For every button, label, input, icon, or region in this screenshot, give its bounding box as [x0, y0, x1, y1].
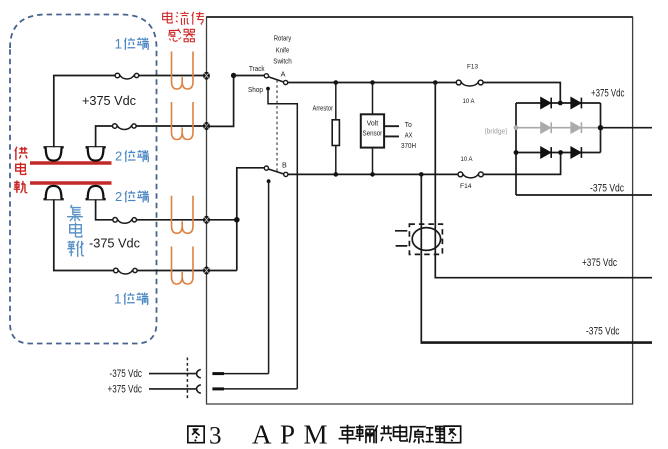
current sensor coil 2	[172, 102, 194, 140]
wire: rail-2 fuse to bus	[136, 125, 206, 127]
collector shoe lower-right	[86, 186, 106, 199]
junction dot F13 branch	[433, 80, 438, 85]
wire: shoe lower-right stem to rail-3 wire	[96, 199, 113, 220]
svg-text:Switch: Switch	[273, 57, 292, 66]
wire: pole B shop contact down run	[268, 182, 270, 374]
collector shoe lower-left	[44, 186, 64, 199]
junction dot arrestor bottom	[334, 172, 339, 177]
svg-text:+375 Vdc: +375 Vdc	[108, 384, 143, 396]
svg-text:10 A: 10 A	[461, 156, 473, 163]
diode D3 mid-left (gray)	[541, 122, 552, 133]
pole A blade	[268, 77, 283, 82]
label 1位端 (top, blue)	[115, 37, 149, 52]
arrestor body	[335, 83, 337, 120]
wire: right feeder through transducer down to +375 output	[435, 83, 652, 278]
svg-text:To: To	[405, 120, 412, 129]
svg-text:+375 Vdc: +375 Vdc	[582, 257, 617, 269]
label 集电靴 (vertical, blue)	[67, 205, 84, 257]
wire: pole A output to fuse F13	[288, 82, 457, 84]
svg-text:AX: AX	[405, 131, 413, 140]
transducer dashed housing	[409, 224, 442, 254]
volt sensor output leads to AX 370H	[384, 126, 399, 136]
svg-text:1: 1	[115, 37, 123, 52]
wire: shoe lower-left stem to rail-4 wire	[54, 199, 114, 270]
label 2位端 (upper, blue)	[115, 149, 149, 164]
diode D1 top-left	[541, 97, 552, 108]
wire: F13 to bridge top	[483, 83, 560, 104]
svg-text:Volt: Volt	[367, 119, 379, 128]
fuse on rail-1 wire	[115, 73, 139, 79]
volt sensor box	[372, 83, 374, 115]
label 电流传感器 (current sensor, red)	[163, 12, 204, 42]
svg-text:F13: F13	[467, 64, 478, 71]
pole B shop contact dot	[267, 179, 271, 183]
wire: pole B output to fuse F14	[288, 173, 458, 175]
current sensor coil 1	[172, 52, 194, 90]
diode D5 bottom-left	[541, 147, 552, 158]
main schematic frame box	[207, 17, 633, 404]
label 2位端 (lower, blue)	[115, 189, 149, 204]
fuse on rail-2 wire	[113, 124, 137, 130]
collector shoe upper-left	[44, 147, 64, 160]
diode D4 mid-right (gray)	[571, 122, 582, 133]
wire: Shop A down-over-down run	[268, 89, 297, 389]
svg-text:Knife: Knife	[276, 46, 290, 55]
fuse F14	[458, 172, 483, 178]
svg-text:(bridge): (bridge)	[485, 127, 508, 136]
feed stub +375	[212, 387, 224, 390]
fuse on rail-3 wire	[113, 218, 137, 224]
wire: rail-3 fuse to link column	[137, 219, 237, 221]
junction dot volt sensor top	[370, 80, 375, 85]
label 1位端 (bottom, blue)	[114, 292, 148, 307]
rotary knife switch pole B: track contact	[264, 166, 268, 170]
frame top edge emphasised	[207, 16, 633, 18]
wire: negative link column (rail3/rail4 tie feeding pole B)	[237, 168, 264, 271]
svg-text:2: 2	[115, 189, 122, 204]
current sensor coil 4	[172, 247, 194, 285]
feed stub -375	[212, 372, 224, 375]
svg-text:-375 Vdc: -375 Vdc	[590, 183, 624, 195]
wire: left feeder through transducer down to -375 output	[420, 174, 422, 342]
diode D6 bottom-right	[571, 147, 582, 158]
svg-text:3: 3	[209, 423, 222, 449]
svg-text:Shop: Shop	[248, 85, 263, 94]
fuse F13	[456, 80, 483, 86]
svg-text:1: 1	[114, 292, 122, 307]
pole B hinge contact	[284, 172, 288, 176]
wire: bridge -output run to right edge	[516, 194, 652, 196]
label 供电轨 (vertical, red)	[14, 147, 28, 193]
svg-text:Track: Track	[249, 64, 265, 73]
wire: positive link jog (rail1/rail2 tie)	[207, 76, 234, 127]
supply rail bar top (red)	[30, 161, 112, 164]
svg-text:-375 Vdc: -375 Vdc	[110, 368, 143, 380]
supply rail bar bottom (red)	[30, 181, 112, 184]
wire: rail-4 fuse to link column	[137, 270, 237, 272]
feed boundary dashed line	[186, 358, 188, 401]
svg-text:APM: APM	[252, 420, 336, 449]
junction dot arrestor top	[334, 80, 339, 85]
wire: rail-1 fuse to bus	[139, 75, 207, 77]
svg-text:Rotary: Rotary	[274, 34, 292, 43]
power-rail zone dashed rounded rectangle	[10, 15, 157, 344]
junction dot on rail-1 wire	[231, 73, 236, 78]
svg-text:Arrestor: Arrestor	[313, 104, 334, 113]
collector shoe upper-right	[86, 147, 106, 160]
svg-text:-375 Vdc: -375 Vdc	[586, 326, 620, 338]
svg-text:F14: F14	[460, 183, 472, 190]
wire: shoe upper-right stem to rail-2 wire	[96, 126, 113, 147]
svg-text:370H: 370H	[401, 141, 416, 150]
diode D2 top-right	[571, 97, 582, 108]
mechanical link dashed line between poles	[276, 80, 278, 171]
diode bridge rails	[516, 103, 601, 195]
svg-text:A: A	[281, 70, 286, 79]
bus junction node 2 (circled X)	[203, 122, 210, 130]
wire: F14 to bridge bottom	[483, 153, 560, 175]
junction dot propulsion branch	[419, 172, 424, 177]
pole A Shop contact dot	[266, 87, 270, 91]
junction dot volt sensor bottom	[370, 172, 375, 177]
svg-text:10 A: 10 A	[463, 98, 475, 105]
bottom feed +375 Vdc line	[149, 388, 196, 390]
rotary knife switch pole A: Track contact	[264, 74, 268, 78]
wire: rail-1 junction to Track contact A	[234, 75, 264, 77]
svg-text:+375 Vdc: +375 Vdc	[591, 88, 625, 100]
bus junction node 4 (circled X)	[203, 267, 210, 275]
bridge middle phase line (gray)	[516, 127, 601, 129]
svg-text:-375 Vdc: -375 Vdc	[89, 237, 140, 251]
svg-text:+375 Vdc: +375 Vdc	[82, 94, 136, 108]
fuse on rail-4 wire	[114, 268, 138, 274]
svg-text:B: B	[282, 161, 287, 170]
label To AX 370H	[401, 120, 416, 150]
connector arc +375 feed	[197, 385, 201, 393]
wire: shoe upper-left stem to rail-1 wire	[54, 76, 115, 148]
caption 图 3 APM 车辆供电原理图	[188, 420, 461, 449]
pole A hinge contact	[284, 80, 288, 84]
wire: bridge +output to right edge	[601, 127, 653, 129]
svg-text:2: 2	[115, 149, 122, 164]
bottom feed -375 Vdc line	[149, 373, 196, 375]
bus junction node 3 (circled X)	[203, 216, 210, 224]
junction dot on link column at rail-3	[234, 217, 240, 223]
connector arc -375 feed	[197, 370, 201, 378]
label Rotary Knife Switch A	[273, 34, 292, 79]
transducer terminal stubs	[395, 231, 407, 246]
svg-text:Sensor: Sensor	[363, 129, 383, 138]
wire: +375 feed to shop A run	[224, 388, 297, 390]
bridge node dots	[558, 101, 563, 106]
current sensor coil 3	[172, 196, 194, 234]
current transducer ellipse	[412, 228, 440, 251]
pole B blade	[268, 169, 284, 174]
bus junction node 1 (circled X)	[203, 72, 210, 80]
wire: -375 feed to pole B shop	[224, 373, 269, 375]
